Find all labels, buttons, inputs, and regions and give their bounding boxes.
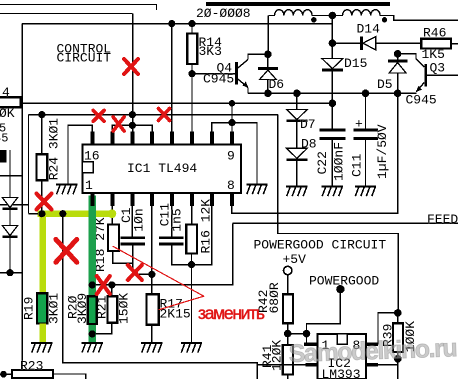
wire R39 bottom — [397, 352, 399, 379]
wire R14 bottom to pin11 — [191, 64, 193, 131]
svg-text:Samodelkino.ru: Samodelkino.ru — [288, 334, 458, 368]
svg-text:2K15: 2K15 — [160, 307, 191, 322]
wire Q3 base — [427, 74, 458, 76]
wire stub left y=175.7 — [0, 175, 22, 177]
wire pin5 to C11 — [171, 206, 173, 237]
diode D5 — [397, 54, 399, 60]
transistor Q3 C945 — [424, 64, 427, 87]
red leader line to R17 — [159, 296, 204, 309]
wire R41 bottom — [287, 375, 289, 379]
svg-text:3KØ1: 3KØ1 — [46, 293, 61, 324]
ground R20 — [82, 342, 103, 353]
node R39 bottom — [394, 355, 402, 363]
wire pin16 to ground — [68, 125, 92, 183]
node green wire junction sense tap — [59, 210, 66, 217]
wire R16 bottom — [191, 254, 193, 265]
wire C11 bottom — [172, 245, 192, 264]
svg-text:заменить: заменить — [198, 303, 265, 323]
diode D14 — [360, 36, 363, 50]
node pin9 riser / rail — [229, 100, 235, 106]
wire Q4 emitter — [247, 88, 249, 94]
IC1 bottom pin stubs 1..8 — [90, 193, 94, 206]
node R21 top — [108, 281, 115, 288]
red X mark control area — [124, 59, 138, 74]
svg-text:LM393: LM393 — [322, 367, 361, 379]
node C11 top — [362, 90, 370, 98]
wire feedback bus y=114.6 — [29, 114, 278, 116]
wire highlighted pin1 net (dark green) — [89, 196, 96, 342]
diode D7 — [296, 93, 298, 109]
svg-text:1Øn: 1Øn — [131, 208, 146, 231]
node green wire junction R24 — [38, 210, 45, 217]
resistor R23 — [12, 370, 53, 378]
transistor Q4 C945 — [235, 62, 238, 85]
node R39 top — [394, 309, 402, 317]
wire IC2 lower-left pin — [257, 364, 306, 366]
red X mark on feedback bus left — [93, 110, 104, 121]
red X mark big left — [56, 239, 77, 262]
capacitor C11 1uF/50V — [365, 93, 367, 128]
svg-text:D5: D5 — [377, 77, 393, 92]
diode chain line left x=10 — [9, 150, 11, 273]
node R20 top — [89, 281, 96, 288]
svg-text:+5V: +5V — [283, 252, 307, 267]
wire pin14 riser from rail 2 — [132, 14, 134, 132]
svg-text:R23: R23 — [20, 358, 43, 373]
ground pin9 bracket — [246, 183, 267, 194]
wire feedback to divider — [92, 223, 232, 285]
svg-text:D6: D6 — [269, 77, 285, 92]
diode D6 — [267, 54, 269, 70]
diode D-left-2 — [2, 226, 17, 236]
resistor R46 1K5 — [421, 39, 451, 49]
svg-text:R16 12K: R16 12K — [198, 199, 213, 254]
capacitor C1 10n — [120, 236, 145, 239]
capacitor C11 1n5 — [159, 236, 184, 239]
node R20/R21 bottom dot over green — [89, 330, 96, 337]
op-amp IC2 LM393 — [318, 334, 366, 379]
wire R17 to ground — [151, 325, 153, 342]
clipped component stub left — [0, 150, 7, 163]
wire pin8 feedback run — [232, 93, 398, 213]
wire stub left y=204.6 — [0, 204, 29, 206]
IC1 pin1 stub over green — [90, 193, 94, 206]
node D5 bottom — [394, 90, 402, 98]
wire R46 right — [451, 43, 458, 45]
node R24 top — [38, 111, 45, 118]
wire output sense drop x=277.8 — [278, 115, 399, 313]
wire pin2 to R18 — [111, 206, 113, 225]
resistor R4 (clipped left) — [0, 97, 21, 107]
node green wire end at pin2 (green dot) — [108, 209, 117, 218]
wire pin6 to R16 — [191, 206, 193, 225]
svg-text:3K3: 3K3 — [199, 44, 222, 59]
wire pin7 jumper — [192, 206, 212, 265]
svg-text:Q3: Q3 — [430, 60, 446, 75]
wire bracket pins 10-9 — [212, 123, 257, 184]
resistor R39 100K — [397, 313, 399, 323]
diode D15 — [322, 59, 343, 69]
svg-text:C945: C945 — [406, 92, 437, 107]
red X mark on pin15 bracket — [113, 117, 124, 131]
node R23 left — [0, 371, 7, 378]
resistor R18 27K — [108, 225, 119, 251]
svg-text:1ØØnF: 1ØØnF — [331, 142, 346, 181]
node D6 bottom — [264, 90, 272, 98]
node junction V+ / pin12 — [168, 20, 175, 27]
wire left drop x=28.5 — [28, 115, 30, 214]
svg-text:68ØR: 68ØR — [267, 282, 282, 313]
svg-text:16: 16 — [84, 149, 100, 164]
wire D14 to R46 — [376, 42, 422, 44]
resistor R20 3K09 (highlighted) — [88, 296, 97, 324]
svg-text:8: 8 — [227, 178, 235, 193]
thick output bar — [206, 2, 390, 6]
wire node to ground — [191, 265, 193, 342]
node R20 top dot over green — [89, 281, 96, 288]
svg-text:D15: D15 — [344, 56, 367, 71]
svg-text:D7: D7 — [300, 117, 316, 132]
node junction V+ / R14 — [188, 20, 195, 27]
wire IC2 pin8 to R39 — [378, 313, 398, 344]
wire pin3 to C1 — [131, 206, 133, 237]
wire R24 top lead — [41, 115, 43, 155]
wire divider to IC2 pin1 — [288, 334, 307, 345]
ground C11 — [355, 185, 376, 196]
wire R42 bottom — [287, 323, 289, 333]
svg-text:2Ø-ØØØ8: 2Ø-ØØØ8 — [196, 6, 251, 21]
svg-text:R19: R19 — [22, 297, 37, 320]
ground pin16 — [56, 183, 77, 194]
svg-text:D14: D14 — [357, 22, 381, 37]
wire R14 top lead — [191, 24, 193, 34]
wire V+ rail / control box top y=23.6 — [22, 23, 332, 25]
wire FEEDBACK line — [233, 222, 458, 224]
wire bracket pins 15-13 — [112, 125, 152, 131]
node pin14 line / feedback bus — [129, 111, 136, 118]
svg-text:12ØK: 12ØK — [269, 340, 284, 371]
svg-text:C22: C22 — [315, 151, 330, 174]
ground D8 — [286, 185, 307, 196]
wire R24 bottom lead — [41, 180, 43, 213]
diode D8 — [296, 122, 298, 148]
svg-text:CIRCUIT: CIRCUIT — [57, 51, 112, 66]
winding polarity dots — [311, 17, 316, 22]
svg-text:R24 3KØ1: R24 3KØ1 — [47, 118, 62, 181]
wire POWERGOOD to IC2 — [307, 289, 341, 333]
red X mark on feedback bus right — [159, 109, 170, 121]
wire emitter bus y=93.3 — [248, 92, 416, 94]
red X mark R24 bottom — [37, 194, 52, 210]
red X mark pin2/R21 — [97, 276, 110, 294]
wire winding center to D15 — [331, 16, 333, 59]
svg-text:4: 4 — [2, 85, 10, 100]
wire pin9 riser to R4 rail — [231, 103, 233, 131]
node D5 top — [394, 50, 402, 58]
node bracket center — [129, 122, 136, 129]
svg-text:C11: C11 — [350, 153, 365, 177]
wire R4 output y=103.3 — [21, 102, 333, 104]
wire D15 to C22 — [331, 71, 333, 128]
black wire under green y=213.7 — [29, 213, 39, 215]
svg-text:1n5: 1n5 — [170, 208, 185, 231]
red X mark C1 bottom — [128, 265, 142, 280]
capacitor C22 100nF — [320, 128, 346, 131]
wire R18 bottom — [113, 251, 133, 263]
wire pin4 to R17 — [151, 206, 153, 295]
diode D-left-1 — [2, 198, 17, 208]
resistor R42 680R — [283, 294, 293, 323]
wire top rail 1 — [0, 5, 157, 10]
wire sense tap x=62.8 — [63, 214, 258, 379]
wire R21 top lead — [111, 285, 113, 296]
ground R16/C11 — [181, 342, 202, 353]
op-amp/PWM IC1 TL494 body — [82, 144, 241, 193]
svg-text:ØK: ØK — [0, 106, 15, 121]
node D6 top — [264, 51, 272, 59]
wire D14 branch — [332, 42, 360, 44]
node winding center tap — [329, 12, 337, 20]
wire y=272.7 — [0, 272, 22, 274]
svg-text:POWERGOOD: POWERGOOD — [309, 273, 379, 288]
wire R21 bottom jumper — [92, 323, 112, 334]
svg-text:POWERGOOD CIRCUIT: POWERGOOD CIRCUIT — [254, 238, 387, 253]
wire pin12 riser — [171, 24, 173, 132]
ground C22 — [322, 185, 343, 196]
wire R23 right — [53, 374, 86, 379]
svg-text:1µF/5ØV: 1µF/5ØV — [375, 124, 390, 179]
node D14 branch — [329, 39, 337, 47]
svg-text:FEEDB: FEEDB — [427, 212, 458, 227]
node diode chain / stub — [6, 269, 13, 276]
IC1 top pin stubs 16..9 — [90, 132, 94, 145]
svg-text:9: 9 — [227, 149, 235, 164]
resistor R17 2K15 — [147, 294, 159, 324]
wire highlighted pin2 net (yellow-green) — [38, 211, 115, 217]
wire D5 top to Q3 collector — [398, 54, 416, 59]
wire winding left leg to D6 — [267, 16, 269, 55]
IC2 pin stubs — [304, 342, 317, 346]
resistor R21 150K — [107, 296, 117, 323]
node IC2 pin1 branch — [303, 330, 311, 338]
wire C1 bottom junction — [133, 245, 152, 274]
node POWERGOOD terminal — [336, 285, 344, 293]
svg-text:3KØ9: 3KØ9 — [75, 293, 90, 324]
ground R17 — [141, 342, 162, 353]
inductor T winding — [268, 10, 332, 16]
node pin9 — [228, 119, 235, 126]
resistor R19 3K01 (highlighted) — [37, 293, 47, 323]
ground R19 — [31, 342, 52, 353]
svg-text:IC1 TL494: IC1 TL494 — [127, 161, 197, 176]
node C1/R18 to pin4 line — [148, 271, 155, 278]
red leader line to R18/C1 — [113, 246, 204, 296]
wire Q4 base — [192, 73, 235, 75]
resistor R41 120K — [287, 334, 289, 345]
node C11/R16/pin7 — [188, 261, 195, 268]
wire IC2 lower-right pin — [378, 364, 398, 366]
node R42/R41 — [284, 330, 292, 338]
control circuit box left edge — [21, 24, 23, 370]
resistor R14 3K3 — [187, 33, 197, 64]
wire top rail 2 — [0, 13, 133, 15]
node D7 top — [293, 90, 301, 98]
node R14 / Q4 base — [188, 70, 195, 77]
wire R23 left stub — [0, 373, 12, 375]
svg-text:15ØK: 15ØK — [117, 293, 132, 324]
wire Q4 collector — [248, 54, 268, 59]
resistor R24 — [37, 154, 48, 180]
svg-text:C945: C945 — [203, 71, 234, 86]
svg-text:R46: R46 — [423, 26, 446, 41]
node D15 line / R4 rail — [329, 100, 337, 108]
svg-text:45: 45 — [0, 132, 8, 146]
svg-text:1: 1 — [85, 178, 93, 193]
wire +5V to R42 — [287, 275, 289, 295]
resistor R16 12K — [186, 225, 197, 254]
